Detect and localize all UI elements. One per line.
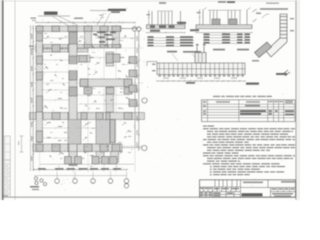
labels above beam xyxy=(167,51,177,53)
left notch xyxy=(147,62,157,64)
left dimension line xyxy=(32,26,34,170)
label block top-mid xyxy=(108,9,126,11)
right pier pad xyxy=(129,85,137,92)
table header marks xyxy=(203,101,207,102)
bent strip xyxy=(266,14,287,57)
schedule rows under detail 2-2 xyxy=(203,34,250,36)
beam body xyxy=(157,63,245,75)
small dim bracket right of strip xyxy=(21,136,23,152)
corner scan marks bottom-left xyxy=(2,195,8,196)
small marks right of beam xyxy=(283,70,290,76)
vert wall x106 middle xyxy=(106,52,114,66)
vert stub x96 xyxy=(96,152,104,163)
rebar dowels detail 2-2 xyxy=(209,11,211,25)
main middle wall y112 xyxy=(30,113,145,120)
interior dimension strings xyxy=(43,59,70,61)
small plan annotations xyxy=(47,36,49,37)
right pier pad xyxy=(129,100,137,107)
schedule rows under detail 1-1 xyxy=(147,37,194,39)
bottom footing pads xyxy=(65,157,72,165)
hatched anchor block xyxy=(255,42,272,58)
pad right of x106 wall xyxy=(113,54,120,62)
upper interior wall band y44 strip1 xyxy=(36,45,121,48)
label under detail 1-1 xyxy=(150,30,160,32)
footing outline line xyxy=(40,163,134,165)
pad x124 y87 xyxy=(124,88,132,95)
small axis bubble xyxy=(35,181,38,184)
dense annotation cluster xyxy=(97,32,106,34)
axis bubble bottom xyxy=(108,179,113,184)
top dimension line xyxy=(36,22,135,24)
axis bubble bottom xyxy=(55,179,60,184)
mid-right horizontal wall y79 xyxy=(80,79,132,87)
scan speckle noise xyxy=(30,8,294,197)
darker strip x110-115 xyxy=(110,120,115,143)
bottom axis line xyxy=(34,175,127,177)
axis bubble bottom xyxy=(73,179,78,184)
dim digit dashes under beam xyxy=(163,78,169,79)
vert wall x100 top xyxy=(101,32,108,45)
side stamp strip xyxy=(5,136,11,160)
beam stirrup ticks xyxy=(160,63,243,75)
right pier pad xyxy=(129,57,137,64)
footing slab detail 2-2 xyxy=(196,25,252,29)
item number ticks xyxy=(210,166,212,167)
right dimension line xyxy=(138,31,140,150)
vert wall x112 top xyxy=(113,32,120,45)
dim text left of band2 xyxy=(29,46,34,47)
tiny marks below label xyxy=(99,15,103,16)
bottom axis bubbles xyxy=(56,172,58,179)
left grid small texts xyxy=(200,188,203,189)
small label y17 xyxy=(74,18,83,20)
elevation marks left top xyxy=(31,18,37,19)
dark scribbles bottom-left under plan xyxy=(30,186,39,188)
extra scan noise marks xyxy=(44,32,47,35)
central wall x69 xyxy=(69,32,77,166)
grid axis lines xyxy=(39,24,41,172)
axis bubble right top b xyxy=(137,27,141,31)
title block texts xyxy=(242,193,263,196)
small axis bubble xyxy=(34,177,37,180)
axis bubble right top a xyxy=(132,27,136,31)
corner tick marks right xyxy=(253,9,257,12)
footing slab detail 1-1 xyxy=(147,25,186,29)
bottom wall y144 xyxy=(33,144,122,152)
right pier pad xyxy=(129,70,137,77)
pad x84 y87 xyxy=(84,88,92,95)
section walls detail 2-2 xyxy=(202,10,204,25)
central wall bottom stub xyxy=(69,152,77,164)
vert wall x84 top xyxy=(85,32,92,45)
bottom dimension line with numbers xyxy=(34,169,127,171)
wall segment right of central wall xyxy=(77,56,90,63)
small axis bubble xyxy=(40,179,43,182)
table caption xyxy=(213,96,272,97)
left exterior wall x36 xyxy=(36,32,42,143)
sheet frame xyxy=(14,0,16,200)
axis bubble bottom extra xyxy=(124,184,128,188)
wide light wall x68-81 lower xyxy=(68,120,81,145)
vert stub x110 xyxy=(111,152,119,163)
label block top-left xyxy=(44,12,58,15)
section walls detail 1-1 xyxy=(151,11,153,25)
rebar dowels detail 1-1 xyxy=(157,12,159,25)
door gap in central wall xyxy=(69,64,78,71)
axis bubble right bottom xyxy=(142,145,147,150)
axis bubble bottom xyxy=(124,179,129,184)
small box on beam top xyxy=(195,53,206,64)
scan edge dark strip left xyxy=(0,0,2,200)
right vertical dimension digits xyxy=(137,36,138,41)
axis bubble right mid xyxy=(142,98,147,103)
small axis bubble xyxy=(43,182,46,185)
label right of detail 1-1 xyxy=(177,22,186,24)
dimension line under beam xyxy=(157,80,245,82)
table rows content xyxy=(245,105,260,107)
upper interior wall band y44 strip2 xyxy=(36,49,88,52)
axis bubble bottom xyxy=(91,179,96,184)
dark feet under ticks xyxy=(158,75,243,77)
section marks 1-1 on beam xyxy=(196,46,198,52)
wall band x96-110 bottom xyxy=(96,120,110,145)
top exterior wall y26 xyxy=(36,26,121,32)
vert wall x106 lower-mid xyxy=(106,87,114,112)
column blocks detail 2-2 xyxy=(212,19,220,27)
pad x106 y87 xyxy=(106,88,114,95)
